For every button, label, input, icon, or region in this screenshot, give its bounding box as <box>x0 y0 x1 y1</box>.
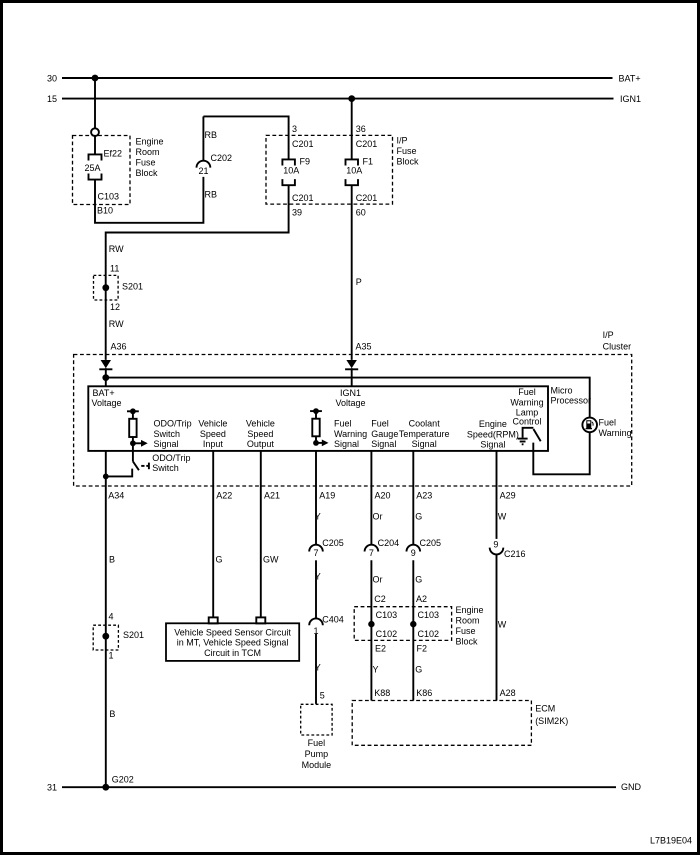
svg-text:Fuel: Fuel <box>599 418 617 428</box>
svg-text:C103: C103 <box>376 610 398 620</box>
svg-text:Signal: Signal <box>154 439 179 449</box>
wire ODO switch drop <box>132 443 134 461</box>
svg-text:C2: C2 <box>374 594 386 604</box>
wire ground bus <box>62 786 616 788</box>
svg-text:Pump: Pump <box>305 749 329 759</box>
svg-text:RB: RB <box>205 130 218 140</box>
svg-text:S201: S201 <box>122 281 143 291</box>
svg-text:Warning: Warning <box>334 429 367 439</box>
svg-text:RW: RW <box>109 244 124 254</box>
wire A19 upper <box>315 451 317 545</box>
wire top run to F9 <box>203 116 288 159</box>
svg-text:K88: K88 <box>374 688 390 698</box>
junction G202 <box>102 784 109 791</box>
svg-text:A34: A34 <box>108 491 124 501</box>
svg-text:Output: Output <box>247 439 275 449</box>
resistor ODO pullup <box>127 408 139 446</box>
svg-text:Engine: Engine <box>136 137 164 147</box>
svg-text:Or: Or <box>373 574 383 584</box>
connector C205 A23 <box>407 538 442 558</box>
wire Ef22 down and right to C202 <box>95 177 203 223</box>
wire F1 branch <box>351 99 353 160</box>
svg-text:Block: Block <box>397 157 420 167</box>
svg-text:C204: C204 <box>378 538 400 548</box>
junction C103/C102 A20 <box>368 621 374 627</box>
junction BAT+ internal <box>102 374 109 381</box>
svg-text:10A: 10A <box>283 165 299 175</box>
junction on A34 <box>103 474 109 480</box>
terminal A21 <box>256 617 265 623</box>
svg-text:Cluster: Cluster <box>603 341 632 351</box>
wire BAT+ to Ef22 <box>94 78 96 129</box>
svg-text:I/P: I/P <box>397 136 408 146</box>
svg-text:C205: C205 <box>322 538 344 548</box>
svg-text:21: 21 <box>198 166 208 176</box>
connector C205 A19 <box>309 538 344 558</box>
svg-text:C201: C201 <box>356 139 378 149</box>
svg-text:Speed(RPM): Speed(RPM) <box>467 430 519 440</box>
svg-text:Room: Room <box>456 615 480 625</box>
svg-text:Switch: Switch <box>154 429 181 439</box>
svg-text:31: 31 <box>47 783 57 793</box>
wire A21 <box>260 451 262 618</box>
wire A19 mid <box>315 560 317 618</box>
svg-text:G: G <box>216 555 223 565</box>
svg-text:Micro: Micro <box>551 385 573 395</box>
wire IGN1 bus <box>62 98 614 100</box>
svg-text:C103: C103 <box>98 192 120 202</box>
svg-text:G: G <box>415 574 422 584</box>
wire A20 upper <box>370 451 372 545</box>
svg-text:Signal: Signal <box>412 439 437 449</box>
svg-text:Speed: Speed <box>247 429 273 439</box>
svg-text:Fuse: Fuse <box>456 626 476 636</box>
svg-text:B: B <box>109 709 115 719</box>
svg-text:30: 30 <box>47 73 57 83</box>
svg-text:BAT+: BAT+ <box>93 388 115 398</box>
svg-text:Y: Y <box>373 665 379 675</box>
svg-text:IGN1: IGN1 <box>620 94 641 104</box>
svg-text:Fuel: Fuel <box>308 738 326 748</box>
wire A23 upper <box>412 451 414 545</box>
svg-text:Block: Block <box>456 636 479 646</box>
svg-text:ECM: ECM <box>535 704 555 714</box>
svg-text:C201: C201 <box>292 139 314 149</box>
svg-text:in MT, Vehicle Speed Signal: in MT, Vehicle Speed Signal <box>177 638 289 648</box>
svg-text:ODO/Trip: ODO/Trip <box>154 419 192 429</box>
svg-text:K86: K86 <box>416 688 432 698</box>
wire C202 up <box>202 116 204 160</box>
wire A22 <box>212 451 214 618</box>
vehicle speed sensor box <box>166 623 299 661</box>
splice S201 upper <box>94 275 144 300</box>
fuse F9 10A <box>282 156 310 185</box>
svg-text:Module: Module <box>302 760 332 770</box>
svg-text:Fuel: Fuel <box>371 419 389 429</box>
fuel pump module box <box>301 704 332 770</box>
junction on BAT+ bus <box>92 75 99 82</box>
svg-text:A2: A2 <box>416 594 427 604</box>
svg-text:39: 39 <box>292 208 302 218</box>
svg-text:E2: E2 <box>375 644 386 654</box>
resistor fuel warning pullup <box>310 408 322 446</box>
svg-text:A36: A36 <box>111 341 127 351</box>
svg-text:Fuse: Fuse <box>136 158 156 168</box>
lamp fuel warning <box>582 418 631 439</box>
wire BAT+ internal run to lamp <box>106 378 590 418</box>
svg-text:Or: Or <box>373 512 383 522</box>
switch fuel warning lamp control <box>523 428 541 441</box>
svg-text:9: 9 <box>493 540 498 550</box>
svg-text:Block: Block <box>136 168 159 178</box>
svg-text:F1: F1 <box>363 156 374 166</box>
svg-text:P: P <box>356 277 362 287</box>
svg-text:C102: C102 <box>418 629 440 639</box>
connector C204 <box>365 538 400 558</box>
svg-text:GW: GW <box>263 555 279 565</box>
wire F1 down to cluster <box>351 185 353 360</box>
cluster inner box <box>88 386 548 451</box>
svg-text:Control: Control <box>512 417 541 427</box>
splice S201 lower <box>93 625 144 650</box>
svg-text:Fuel: Fuel <box>518 387 536 397</box>
svg-text:A19: A19 <box>319 491 335 501</box>
svg-text:BAT+: BAT+ <box>619 73 641 83</box>
wire BAT+ bus <box>62 77 613 79</box>
svg-text:C102: C102 <box>376 629 398 639</box>
svg-text:Circuit in TCM: Circuit in TCM <box>204 648 261 658</box>
svg-text:Voltage: Voltage <box>92 398 122 408</box>
svg-text:B10: B10 <box>97 206 113 216</box>
svg-text:S201: S201 <box>123 630 144 640</box>
fuse F1 10A <box>346 156 374 185</box>
wire A29 lower <box>496 554 498 700</box>
svg-text:I/P: I/P <box>603 330 614 340</box>
svg-text:Gauge: Gauge <box>371 429 398 439</box>
svg-text:5: 5 <box>320 691 325 701</box>
svg-text:Signal: Signal <box>480 440 505 450</box>
svg-text:60: 60 <box>356 208 366 218</box>
svg-text:B: B <box>109 555 115 565</box>
svg-text:A20: A20 <box>375 491 391 501</box>
svg-text:Fuse: Fuse <box>397 146 417 156</box>
svg-text:Ef22: Ef22 <box>104 149 123 159</box>
wire A35 into box <box>351 368 353 386</box>
svg-text:Input: Input <box>203 439 224 449</box>
terminal A22 <box>209 617 218 623</box>
svg-text:Engine: Engine <box>456 605 484 615</box>
svg-text:GND: GND <box>621 782 642 792</box>
wire switch to A34 <box>106 469 132 477</box>
diode terminal A35 <box>345 360 358 369</box>
I/P cluster box <box>74 355 632 487</box>
svg-text:7: 7 <box>369 548 374 558</box>
svg-text:Vehicle: Vehicle <box>246 419 275 429</box>
svg-text:Signal: Signal <box>334 439 359 449</box>
svg-text:Vehicle Speed Sensor Circuit: Vehicle Speed Sensor Circuit <box>174 627 291 637</box>
wire A29 upper <box>496 451 498 539</box>
svg-text:Room: Room <box>136 147 160 157</box>
ECM box <box>352 701 568 746</box>
svg-text:F9: F9 <box>300 156 311 166</box>
junction C103/C102 A23 <box>410 621 416 627</box>
svg-text:12: 12 <box>110 302 120 312</box>
svg-text:RB: RB <box>205 189 218 199</box>
svg-text:G: G <box>415 512 422 522</box>
svg-text:C201: C201 <box>292 193 314 203</box>
svg-text:25A: 25A <box>85 163 101 173</box>
svg-text:C201: C201 <box>356 193 378 203</box>
wire A23 lower <box>412 560 414 700</box>
svg-text:F2: F2 <box>417 644 428 654</box>
svg-text:Temperature: Temperature <box>399 429 450 439</box>
svg-text:Warning: Warning <box>510 397 543 407</box>
svg-text:10A: 10A <box>346 165 362 175</box>
connector C404 <box>309 615 344 636</box>
svg-text:C205: C205 <box>420 538 442 548</box>
wire circle to fuse <box>94 136 96 154</box>
svg-text:Warning: Warning <box>599 428 632 438</box>
wire A34 down to ground bus <box>105 451 107 787</box>
svg-text:9: 9 <box>411 548 416 558</box>
svg-text:Y: Y <box>315 511 321 521</box>
wire A19 lower <box>315 634 317 704</box>
svg-text:4: 4 <box>109 612 114 622</box>
engine room fuse block box 1 <box>73 136 131 205</box>
svg-text:Voltage: Voltage <box>335 398 365 408</box>
svg-text:Processor: Processor <box>551 396 592 406</box>
wire A36 to junction <box>105 368 107 386</box>
I/P fuse block box <box>266 135 393 204</box>
svg-text:ODO/Trip: ODO/Trip <box>152 453 190 463</box>
svg-text:G202: G202 <box>112 775 134 785</box>
svg-text:C216: C216 <box>504 549 526 559</box>
svg-text:IGN1: IGN1 <box>340 388 361 398</box>
arrow fuel warning signal <box>316 440 329 447</box>
svg-text:W: W <box>498 619 507 629</box>
connector C202 <box>197 153 233 176</box>
svg-text:RW: RW <box>109 319 124 329</box>
svg-text:A35: A35 <box>356 342 372 352</box>
wire switch to lamp <box>533 432 589 474</box>
svg-text:A28: A28 <box>500 688 516 698</box>
connector C216 <box>490 540 526 559</box>
wire F9 down left and to S201 <box>106 185 289 360</box>
svg-text:Fuel: Fuel <box>334 419 352 429</box>
terminal open circle <box>91 128 99 136</box>
svg-text:A23: A23 <box>416 491 432 501</box>
svg-text:Vehicle: Vehicle <box>198 419 227 429</box>
svg-text:Signal: Signal <box>371 439 396 449</box>
junction on IGN1 bus <box>348 95 355 102</box>
svg-text:1: 1 <box>109 651 114 661</box>
fuse Ef22 25A <box>85 149 123 180</box>
arrow ODO signal <box>133 440 148 447</box>
svg-text:C202: C202 <box>211 153 233 163</box>
svg-text:(SIM2K): (SIM2K) <box>535 716 568 726</box>
svg-text:Y: Y <box>315 663 321 673</box>
svg-text:C103: C103 <box>418 610 440 620</box>
svg-text:A21: A21 <box>264 491 280 501</box>
wire A20 lower <box>370 560 372 700</box>
svg-text:Coolant: Coolant <box>409 419 441 429</box>
engine room fuse block box 2 <box>354 607 451 641</box>
svg-text:W: W <box>498 512 507 522</box>
svg-text:3: 3 <box>292 124 297 134</box>
svg-text:7: 7 <box>313 548 318 558</box>
svg-text:15: 15 <box>47 94 57 104</box>
svg-text:A29: A29 <box>500 491 516 501</box>
svg-text:G: G <box>415 665 422 675</box>
svg-text:A22: A22 <box>216 491 232 501</box>
svg-text:36: 36 <box>356 124 366 134</box>
svg-text:Speed: Speed <box>200 429 226 439</box>
svg-text:Engine: Engine <box>479 419 507 429</box>
diode terminal A36 <box>99 360 112 369</box>
svg-text:Switch: Switch <box>152 463 179 473</box>
ground internal <box>518 439 528 445</box>
switch ODO/Trip <box>133 453 191 473</box>
svg-text:L7B19E04: L7B19E04 <box>650 836 692 846</box>
svg-text:11: 11 <box>110 263 119 273</box>
svg-text:C404: C404 <box>322 615 344 625</box>
